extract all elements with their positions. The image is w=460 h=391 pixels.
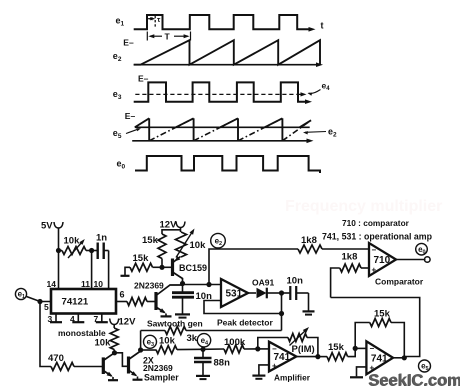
svg-text:12V: 12V [160,220,178,231]
svg-text:741, 531 : operational amp: 741, 531 : operational amp [322,232,433,242]
wire sawtooth to 531 [183,284,222,286]
svg-text:88n: 88n [214,358,231,369]
svg-text:5: 5 [44,302,49,312]
resistor R pin6-base [116,301,127,303]
waveform e0 square pulse train [135,156,320,173]
node BC159 base [159,265,164,270]
op-amp U4 741 amplifier [269,342,296,372]
svg-text:14: 14 [47,279,57,289]
svg-text:T: T [165,32,171,42]
capacitor C3 10n peak [282,292,290,294]
resistor 15k input [327,353,348,361]
node pin14/pot [56,248,61,253]
wire 5V to pin 14 [58,228,60,289]
node e3 [138,347,143,352]
12V supply sampler [110,319,119,325]
resistor R 470 [51,363,74,371]
resistor 15k horizontal [125,267,130,275]
svg-text:Amplifier: Amplifier [274,373,311,383]
IC U1 74121 box [51,289,116,314]
wire Q3 collector to Q4 base [115,353,128,367]
waveform e2 sawtooth [134,40,323,67]
wire e3 riser [140,331,142,351]
junction e1/pin5 [37,299,42,304]
svg-text:1k8: 1k8 [342,252,358,263]
potentiometer 10k timing [62,247,86,255]
svg-text:15k: 15k [142,235,159,246]
node out-amp minus [353,346,358,351]
svg-text:monostable: monostable [58,328,106,338]
op-amp U2 531 [221,279,248,307]
node e5 label circle [419,360,431,372]
transistor Q3 2N2369 sampler A [102,357,105,374]
node e1 input terminal [15,288,26,299]
op-amp 531 output wire [248,292,256,294]
svg-text:10: 10 [94,279,104,289]
resistor 15k vertical [158,234,166,259]
wire comparator plus path [331,298,420,357]
svg-text:15k: 15k [328,342,345,353]
label e5 with pointer [113,128,141,140]
wire amp minus [258,348,269,350]
tau pulse-width marker [148,15,161,28]
node sawtooth output [180,281,185,286]
svg-text:10k: 10k [159,336,176,347]
svg-text:1k8: 1k8 [301,235,317,246]
node e0 label circle [416,243,428,255]
svg-text:2N2369: 2N2369 [143,363,173,373]
svg-text:10n: 10n [287,276,304,287]
svg-text:P(IM): P(IM) [292,344,315,355]
resistor 10k sampler [113,325,115,329]
svg-text:E–: E– [125,111,136,121]
transistor Q1 2N2369 sawtooth [154,292,157,310]
svg-text:531: 531 [226,289,243,300]
12V supply BC159 [176,222,185,228]
svg-text:12V: 12V [119,317,137,328]
svg-text:6: 6 [120,290,125,300]
potentiometer 10k BC159 [176,232,187,257]
svg-text:4: 4 [70,314,75,324]
svg-text:BC159: BC159 [179,263,207,273]
wire node to pin 11 [91,251,93,290]
node out-amp output [402,355,407,360]
svg-text:Sampler: Sampler [144,373,179,383]
node e4 label circle [197,334,210,347]
svg-text:7: 7 [94,314,99,324]
label e4 with pointer [308,81,331,96]
diode D1 OA91 [257,288,267,299]
resistor 15k feedback [355,323,370,349]
wire out-amp minus [355,347,366,349]
wire amp output [296,356,318,358]
op-amp U3 710 [369,243,396,276]
svg-text:5V: 5V [41,221,53,232]
5V supply terminal [54,222,63,228]
svg-text:10k: 10k [95,338,112,349]
op-amp U5 741 output [366,341,393,374]
output e0 terminal [396,259,426,261]
svg-text:Comparator: Comparator [375,277,424,287]
node sampler drive [112,350,117,355]
transistor Q4 2N2369 sampler B [127,357,130,374]
wire base BC159 [162,266,171,268]
node pot/cap/pin11 [89,248,94,253]
ground sawtooth emitter [161,315,172,317]
pin 4 ground [77,314,79,322]
svg-text:3k: 3k [187,333,198,344]
capacitor C2 10n sawtooth [182,284,184,293]
waveform e5 with e2 sawtooth overlay [132,118,313,143]
wire 12V branch [180,228,182,233]
svg-text:+: + [372,266,377,275]
waveform e1 square pulse train [134,15,324,32]
svg-text:11: 11 [81,279,90,289]
wire 531 feedback loop [204,301,282,314]
resistor R 1k8 lower [331,268,340,298]
svg-text:2N2369: 2N2369 [134,281,164,291]
wire out-amp plus ground [357,367,367,377]
svg-text:100k: 100k [224,337,246,348]
node peak detector output [279,290,284,295]
wire e1 down to 470 [40,302,51,367]
label e2 pointer right [303,127,337,139]
node e4 [200,347,205,352]
resistor 3k upper [141,330,165,332]
node e2 terminal [211,233,226,248]
wire cap to pin 10 [104,250,109,252]
svg-text:470: 470 [48,353,64,364]
pin 3 ground [55,314,57,322]
svg-text:Peak detector: Peak detector [217,318,273,328]
svg-text:710: 710 [374,255,391,266]
potentiometer P(IM) feedback [258,338,288,349]
svg-text:+: + [272,362,277,371]
svg-text:−: − [272,345,277,354]
svg-text:−: − [372,246,377,255]
waveform e3 square pulse train [134,82,312,104]
wire e1 to pin 5 [27,297,52,302]
svg-text:10k: 10k [64,236,81,247]
node amp output [315,354,320,359]
svg-text:74121: 74121 [62,297,89,308]
capacitor C1 1n [96,243,98,260]
node e3 label circle [144,335,157,348]
svg-text:15k: 15k [133,253,150,264]
wire pot to cap node [86,250,97,252]
svg-text:−: − [370,344,375,353]
svg-text:Frequency multiplier: Frequency multiplier [285,198,442,215]
wire peak det down [281,293,283,331]
node amp minus [255,346,260,351]
capacitor C4 88n [202,349,204,357]
svg-text:OA91: OA91 [252,278,274,288]
svg-text:E–: E– [138,74,149,84]
svg-text:Sawtooth gen: Sawtooth gen [147,319,203,329]
node e2 takeoff [206,282,211,287]
svg-text:15k: 15k [374,309,391,320]
svg-text:710 : comparator: 710 : comparator [342,218,410,228]
svg-text:3: 3 [48,314,53,324]
resistor R 100k [203,348,224,350]
svg-text:E–: E– [123,38,134,48]
junction feedback node [279,311,284,316]
wire e2 riser [209,249,298,285]
wire out-amp output [393,357,406,359]
svg-text:10k: 10k [190,240,207,251]
svg-text:SeekIC.com: SeekIC.com [369,372,460,390]
wire amp plus ground [259,365,269,375]
pin 7 ground [101,314,103,322]
resistor 10k lower [141,349,156,351]
transistor Q2 BC159 PNP [171,259,174,277]
T period dimension marker [147,32,190,42]
dashed e4 mean level line [135,92,306,96]
resistor R 1k8 upper [298,245,322,253]
svg-text:t: t [321,21,324,31]
svg-text:1n: 1n [96,233,107,244]
